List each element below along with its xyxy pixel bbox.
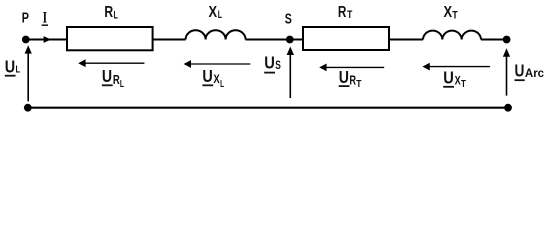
svg-text:X: X bbox=[455, 73, 461, 87]
svg-text:T: T bbox=[452, 9, 458, 21]
svg-text:L: L bbox=[16, 64, 21, 76]
svg-text:T: T bbox=[356, 78, 362, 90]
svg-text:R: R bbox=[338, 4, 347, 21]
svg-text:U: U bbox=[339, 67, 349, 87]
svg-text:U: U bbox=[102, 66, 112, 86]
svg-text:Arc: Arc bbox=[525, 66, 545, 80]
svg-text:L: L bbox=[120, 78, 124, 90]
svg-text:X: X bbox=[209, 4, 218, 21]
svg-text:P: P bbox=[22, 10, 29, 27]
svg-text:S: S bbox=[275, 60, 281, 72]
svg-text:S: S bbox=[285, 10, 292, 27]
svg-text:L: L bbox=[218, 9, 222, 21]
svg-text:U: U bbox=[443, 68, 454, 88]
svg-text:X: X bbox=[444, 4, 453, 21]
svg-text:R: R bbox=[113, 73, 120, 87]
svg-text:T: T bbox=[461, 78, 466, 90]
svg-text:I: I bbox=[43, 10, 48, 27]
svg-text:L: L bbox=[114, 9, 118, 21]
svg-text:T: T bbox=[347, 9, 352, 21]
svg-text:R: R bbox=[104, 4, 113, 21]
svg-text:U: U bbox=[515, 60, 525, 80]
svg-text:L: L bbox=[220, 78, 224, 90]
svg-text:U: U bbox=[202, 66, 212, 86]
svg-text:U: U bbox=[264, 53, 275, 73]
svg-text:X: X bbox=[213, 72, 219, 86]
svg-text:R: R bbox=[349, 73, 356, 87]
svg-text:U: U bbox=[5, 57, 15, 77]
